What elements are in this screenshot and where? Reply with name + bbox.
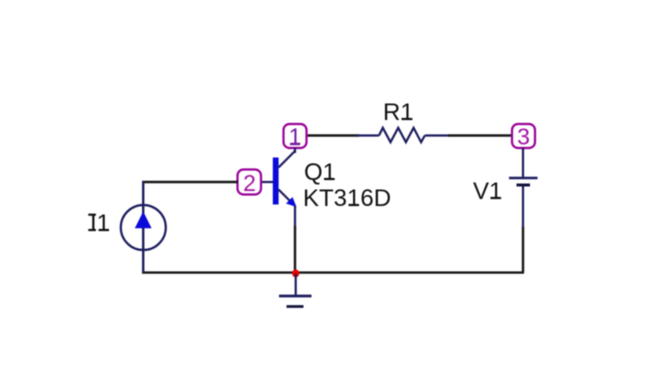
svg-text:3: 3 <box>517 123 530 149</box>
svg-text:1: 1 <box>289 123 302 149</box>
svg-text:KT316D: KT316D <box>303 185 391 212</box>
node 2 <box>238 170 262 196</box>
wire: node 1 to R1 <box>305 134 359 136</box>
junction node dot <box>292 270 299 278</box>
resistor R1 <box>356 128 449 142</box>
transistor Q1 <box>261 148 297 228</box>
wire: bottom rail <box>142 271 524 273</box>
wire: V1 to bottom rail <box>522 227 524 273</box>
current source I1 <box>121 181 166 273</box>
svg-text:Q1: Q1 <box>304 159 336 186</box>
node 3 <box>512 123 535 149</box>
wire: emitter to junction <box>294 226 296 273</box>
wire: R1 to node 3 <box>448 134 513 136</box>
svg-text:R1: R1 <box>383 99 414 126</box>
svg-text:2: 2 <box>243 170 256 196</box>
ground <box>279 274 312 307</box>
battery V1 <box>509 148 538 228</box>
node 1 <box>284 123 307 149</box>
wire: node 2 to I1 corner <box>142 181 238 183</box>
svg-text:V1: V1 <box>473 178 502 205</box>
